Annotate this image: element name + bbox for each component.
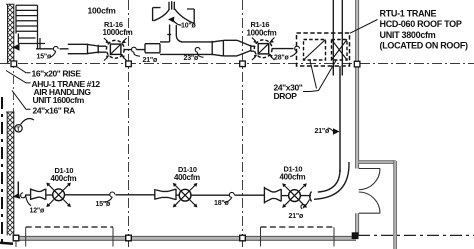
D1 no.2 throw arrows [173,183,198,208]
window tick d [333,227,335,246]
D1 no.1 throw arrows [46,183,71,208]
diffuser D1-10 no.1 [53,189,65,201]
column tick 2 below wall [242,241,244,247]
svg-text:UNIT 3800cfm: UNIT 3800cfm [380,30,436,40]
right wall lower [356,213,359,235]
AHU-1 air handling unit [16,5,45,48]
svg-text:T: T [16,126,20,133]
leader RTU text [350,20,378,34]
room right wall [394,161,397,249]
svg-text:1000cfm: 1000cfm [247,28,277,37]
return flow arrow at AHU [13,44,20,51]
RTU supply square [304,40,326,61]
duct line D2 to D3 [191,194,264,196]
left wall door centerline [13,60,15,113]
svg-text:21"ø: 21"ø [289,213,305,220]
D1 no.3 throw arrows [282,183,307,208]
label hook 15 bottom [105,192,115,202]
flow arrow 10 dia [168,17,174,23]
svg-text:15"ø: 15"ø [37,54,53,61]
svg-text:10"ø: 10"ø [181,22,197,29]
column tick 1 below wall [128,241,130,247]
property line bottom left corner [0,243,13,244]
diffuser R1-16 no.2 [254,40,272,58]
node column 1 on centerline [126,61,132,67]
duct 15in from AHU [36,48,69,50]
svg-text:28"ø: 28"ø [274,54,290,61]
svg-text:HCD-060 ROOF TOP: HCD-060 ROOF TOP [380,19,462,29]
svg-text:12"ø: 12"ø [30,207,46,214]
diffuser D1-10 no.2 [179,189,191,201]
node column 2 on centerline [240,61,246,67]
duct hourglass D2 [155,189,179,200]
duct drop verticals 24x30 [333,0,342,76]
damper at D3 [301,192,312,202]
svg-text:18"ø: 18"ø [214,200,230,207]
window tick a [25,227,27,246]
property line vertical left [1,97,3,243]
node bottom wall right filled [352,233,358,239]
label hook 12 [21,193,31,206]
column centerline 2 vertical [242,0,244,236]
wall hatched upper left [6,4,15,64]
svg-text:400cfm: 400cfm [280,173,306,182]
bottom wall [16,236,356,240]
right wall upper [356,0,359,169]
duct line D1 to D2 [65,194,155,196]
diffuser D1-10 no.3 [289,190,301,202]
column centerline 1 vertical [128,0,130,236]
double door leaves [359,169,380,214]
node wall left on centerline [11,61,17,67]
window tick b [112,227,114,246]
duct drop 21 vertical [339,66,341,172]
canopy dashed right [261,226,335,228]
RTU return square [332,40,348,61]
branch tee risers [167,25,182,42]
wall hatched lower left [6,112,15,236]
property line bottom right [358,234,474,236]
duct 28in to RTU [272,48,293,50]
label hook 15 [50,46,59,57]
tick below left node [15,241,17,247]
svg-text:21"ø: 21"ø [315,128,331,135]
leader 24x30 drop b [303,61,336,92]
svg-text:400cfm: 400cfm [174,173,200,182]
duct 21in segment [125,49,145,51]
thermostat [15,125,22,132]
label hook 18 [224,192,234,202]
duct hourglass D3 [264,187,288,204]
duct run to R1 diffuser 1 [68,44,106,55]
label hook 28 [290,46,300,56]
label hook 23 [195,47,203,57]
RTU-1 dashed casing [297,33,350,66]
canopy dashed left [26,226,113,228]
svg-text:RTU-1 TRANE: RTU-1 TRANE [380,8,437,18]
wall node right [354,61,360,67]
elbow arcs to bottom run [314,162,349,199]
svg-text:1000cfm: 1000cfm [103,28,133,37]
leader 24x16 RA [12,91,31,110]
bottom duct riser at wall [17,182,19,194]
svg-text:DROP: DROP [274,91,298,101]
window tick c [260,227,262,246]
svg-text:100cfm: 100cfm [88,6,117,16]
flow arrow 21 dia upper [333,128,340,135]
centerline main horizontal [0,63,474,65]
svg-text:15"ø: 15"ø [96,201,112,208]
svg-text:UNIT 1600cfm: UNIT 1600cfm [33,95,85,105]
node bottom wall left [13,235,19,241]
leader 24x30 drop a [310,61,317,89]
svg-text:400cfm: 400cfm [51,174,77,183]
diffuser R1 no.2 throw arrows [252,38,275,61]
diffuser R1-16 no.1 [106,40,124,58]
duct hourglass D1 [25,188,53,200]
node bottom column 2 [240,235,246,241]
svg-text:16"x20" RISE: 16"x20" RISE [32,68,82,78]
diffuser R1 no.1 throw arrows [104,38,127,61]
riser flow arrow [13,193,20,199]
label hook 21 lower [303,200,310,209]
svg-text:(LOCATED ON ROOF): (LOCATED ON ROOF) [380,41,469,51]
duct neck rect [145,40,254,56]
svg-text:21"ø: 21"ø [143,57,159,64]
room top wall [359,161,396,164]
svg-text:23"ø: 23"ø [184,55,200,62]
label hook 21 [132,47,140,56]
branch wye fitting [153,1,195,24]
svg-text:24"x16" RA: 24"x16" RA [33,105,76,115]
leader AHU text [6,71,31,83]
leader 16x20 rise [17,67,31,73]
node bottom column 1 [126,235,132,241]
